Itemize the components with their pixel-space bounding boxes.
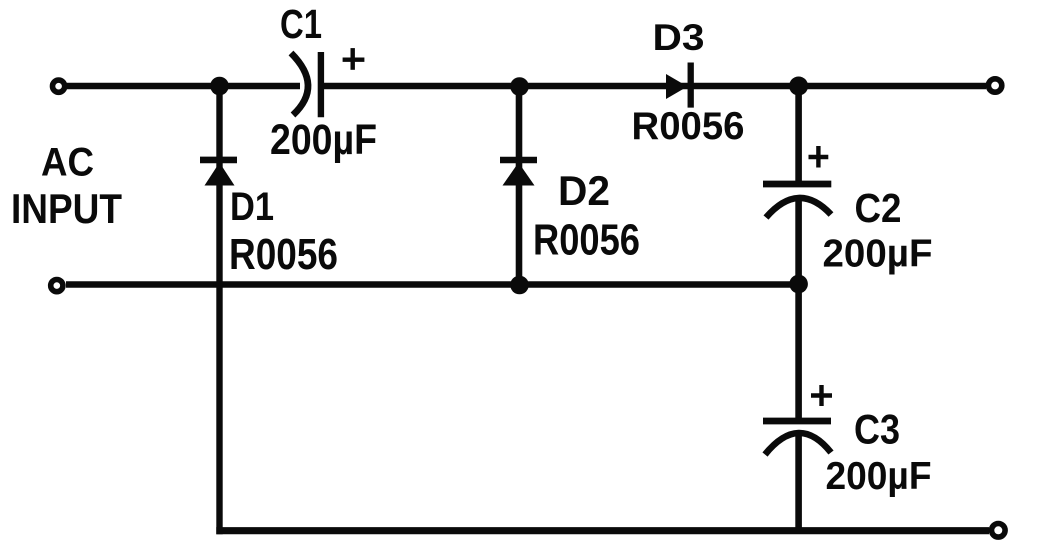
node junction D1-top — [210, 77, 229, 96]
terminal AC bottom — [51, 280, 63, 292]
node junction C2-top — [789, 77, 808, 96]
svg-text:INPUT: INPUT — [11, 185, 122, 232]
capacitor C3 — [763, 421, 831, 455]
svg-text:200µF: 200µF — [270, 116, 377, 164]
diode D3 — [666, 63, 691, 108]
svg-text:R0056: R0056 — [632, 105, 745, 148]
wire middle — [66, 281, 799, 288]
svg-text:D3: D3 — [653, 17, 705, 58]
svg-text:C2: C2 — [855, 185, 902, 231]
terminal AC top — [53, 80, 65, 92]
polarity plus C3 — [811, 385, 832, 406]
wire C3-to-bottom vertical — [795, 434, 802, 533]
polarity plus C1 — [343, 48, 365, 70]
wire D2 vertical — [516, 86, 523, 285]
node junction D2-bottom — [510, 276, 529, 295]
svg-text:C3: C3 — [854, 406, 900, 453]
wire C2-to-mid vertical — [795, 199, 802, 285]
svg-text:C1: C1 — [280, 1, 322, 47]
svg-text:200µF: 200µF — [823, 233, 933, 276]
wire top-left segment — [67, 83, 300, 90]
terminal output bottom — [992, 524, 1006, 538]
wire bottom run — [216, 527, 989, 534]
diode D1 — [200, 160, 237, 186]
svg-text:200µF: 200µF — [826, 455, 932, 498]
svg-text:R0056: R0056 — [533, 215, 640, 264]
capacitor C1 — [291, 52, 321, 117]
capacitor C2 — [763, 184, 831, 218]
wire D1 vertical — [216, 86, 222, 534]
polarity plus C2 — [809, 146, 829, 168]
wire C3 vertical — [795, 285, 802, 422]
wire C2 vertical — [795, 86, 802, 184]
node junction C2-C3 — [789, 275, 808, 294]
node junction D2-top — [510, 77, 529, 96]
diode D2 — [500, 160, 537, 186]
terminal output top — [988, 79, 1001, 92]
svg-text:R0056: R0056 — [229, 230, 338, 279]
wire top-right segment — [321, 83, 986, 90]
svg-text:AC: AC — [41, 141, 94, 185]
svg-text:D2: D2 — [558, 167, 610, 214]
svg-text:D1: D1 — [230, 185, 274, 229]
